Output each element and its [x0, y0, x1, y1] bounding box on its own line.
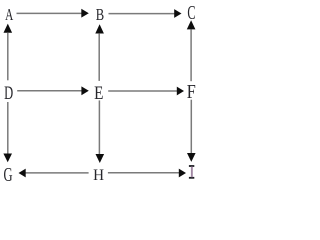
- svg-text:G: G: [4, 163, 13, 186]
- svg-text:B: B: [96, 6, 105, 24]
- svg-text:C: C: [187, 1, 195, 24]
- svg-text:F: F: [187, 80, 196, 102]
- svg-text:A: A: [5, 6, 14, 25]
- svg-text:E: E: [94, 83, 103, 104]
- svg-text:H: H: [93, 166, 104, 183]
- svg-text:D: D: [4, 84, 13, 104]
